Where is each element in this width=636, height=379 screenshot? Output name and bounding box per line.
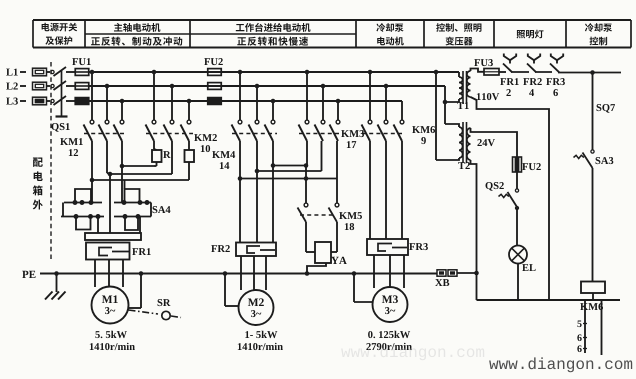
wire: L2 feed vertical: [444, 86, 446, 124]
wire: KM1 pole2 down through SA4 gap: [106, 141, 108, 173]
wire: top right stub: [593, 72, 622, 74]
wire: KM5 pole2 feed: [336, 179, 338, 204]
node L3 label: [6, 98, 12, 105]
wire: lamp circuit bottom rail: [477, 299, 621, 301]
resistor R section 1: [153, 141, 155, 149]
header table frame: [33, 19, 631, 21]
watermark: [489, 361, 498, 369]
contactor KM2 main contacts: [153, 72, 155, 120]
wire: KM4 pole1 / KM3 pole3 / KM5 link: [336, 141, 338, 179]
header cell: coolant pump motor: [376, 23, 385, 32]
wire: T1 primary bottom to L2 vertical: [445, 99, 459, 102]
SA4 row2 bridge left: [76, 217, 91, 230]
contactor coil KM6: [581, 282, 605, 294]
thermal relay FR1 heater box: [86, 243, 130, 260]
header cell: coolant pump control: [585, 23, 594, 32]
wire: KM4 poles down to FR2: [239, 141, 241, 243]
M3 PE bond wire: [353, 274, 355, 303]
terminal wires below rail: [584, 300, 586, 353]
switch SA4 row1: [64, 202, 102, 204]
vertical text beside enclosure line: [33, 157, 43, 166]
M2 PE bond wire: [224, 274, 226, 307]
M3 rating labels: [368, 331, 372, 338]
switch SA3: [591, 150, 594, 153]
contactor KM3 main contacts: [306, 72, 308, 120]
contactor KM1 main contacts: [91, 72, 93, 120]
wire: R2 bottom to KM1 pole1: [188, 166, 190, 180]
header cell: control/lighting transformer: [436, 23, 445, 32]
wire: L3 bus: [89, 100, 402, 102]
wires FR3 to M3: [373, 255, 375, 288]
YA return wire: [307, 263, 326, 274]
wire: KM3 pole1 down to KM5: [306, 141, 308, 166]
thermal contact FR2 NC: [528, 54, 534, 61]
wire: L2 vertical to T2 primary top: [445, 124, 459, 127]
disconnect switch QS1: [51, 70, 54, 73]
24V label: [477, 139, 481, 146]
wire: T1 secondary top to FU3: [471, 69, 485, 72]
header cell: worktable feed motor: [236, 24, 245, 31]
contactor KM5 contacts: [304, 203, 308, 207]
header cell: lighting lamp: [517, 30, 526, 38]
wires: KM6 poles down to FR3: [369, 141, 371, 239]
wire: PE line: [40, 273, 437, 275]
wire: L1 tap to T2 primary bottom: [435, 72, 437, 160]
speed relay SR: [129, 310, 159, 314]
wire: FU3 to FR chain: [499, 71, 506, 73]
switch SA4 row2: [61, 216, 104, 218]
M2 rating labels: [245, 331, 249, 338]
thermal relay FR3: [367, 239, 408, 255]
wires FR2 to M2: [240, 256, 242, 290]
header cell: spindle motor: [114, 23, 122, 32]
motor M1: [92, 287, 129, 324]
wire: KM4 pole3 / KM3 pole1 link: [273, 165, 306, 167]
fuse FU3: [474, 59, 480, 66]
wire: KM4 pole2 / KM3 pole2 link: [321, 141, 323, 171]
fuse group FU1: [72, 58, 78, 65]
wire: T2 secondary bottom down: [471, 160, 477, 300]
thermal contact FR3 NC: [551, 54, 557, 61]
lamp EL: [509, 246, 527, 264]
wire: SA3 to KM6 coil: [592, 168, 594, 282]
wire: L1 bus: [89, 71, 459, 73]
SA4 row1 bridge right: [125, 189, 140, 203]
fuse FU2 (control): [513, 157, 522, 172]
bus junction dots: [90, 70, 95, 75]
wire: R1 bottom to KM1 pole3: [122, 165, 154, 167]
switch QS2: [516, 172, 518, 189]
wire: 110V return rail: [471, 97, 550, 300]
SA4 label: [153, 206, 158, 213]
M1 PE bond wire: [140, 274, 142, 309]
SA4 side links: [62, 203, 64, 217]
SA4 row1 bridge left: [75, 189, 91, 203]
thermal contact FR1 NC: [504, 54, 510, 61]
node L1 label: [6, 69, 12, 76]
L1 supply terminal: [33, 68, 47, 76]
110V label: [477, 93, 481, 100]
contactor KM4 main contacts: [239, 72, 241, 120]
wire: KM1 pole1 down to SA4: [91, 141, 93, 202]
limit switch SQ7 wire: [592, 73, 594, 151]
wires KM5 to YA: [305, 222, 307, 252]
wire: L2 bus: [89, 85, 445, 87]
solenoid YA: [315, 242, 331, 263]
connector XB: [437, 270, 446, 276]
transformer T1: [459, 77, 463, 99]
wire: T2 secondary top to FU2: [471, 128, 518, 157]
wire: QS2 to lamp EL: [516, 207, 518, 246]
L3 supply terminal: [33, 97, 47, 105]
wire: EL to bottom rail: [517, 264, 519, 301]
transformer T2: [459, 127, 463, 158]
wire: KM1 pole3 down to SA4: [121, 141, 123, 202]
thermal relay FR1 upper box: [85, 233, 141, 240]
ground symbol: [56, 274, 58, 293]
motor M3: [373, 287, 408, 322]
SA4 row2 bridge right: [125, 217, 138, 231]
wire: KM2 pole2 to KM1 pole2: [171, 141, 173, 174]
M1 rating labels: [95, 331, 99, 338]
wire: L1 bus corner into T1 primary: [458, 72, 460, 77]
wires FR1 to M1: [94, 260, 96, 288]
L2 supply terminal: [33, 82, 47, 90]
fuse group FU2 (power): [204, 58, 210, 65]
FR contact labels: [500, 78, 506, 85]
motor M2: [239, 290, 274, 325]
PE label: [22, 271, 28, 278]
wires SA4 to FR1 box: [97, 217, 99, 234]
resistor R section 2: [188, 141, 190, 150]
enclosure boundary dashed line: [50, 62, 52, 262]
thermal relay FR2: [236, 243, 276, 257]
contactor KM6 main contacts: [369, 72, 371, 120]
watermark ghost: [341, 345, 484, 360]
header cell: power switch & protection: [42, 23, 50, 31]
node L2 label: [6, 83, 12, 90]
